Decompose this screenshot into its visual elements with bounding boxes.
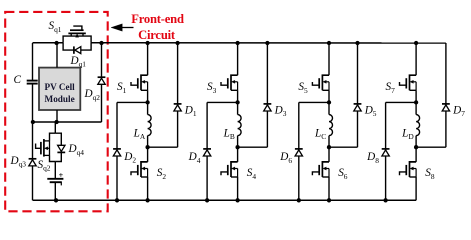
wire: upper cross wire to D4 branch bbox=[207, 101, 238, 103]
wire: D3 branch from top rail down to node wire bbox=[266, 43, 268, 147]
wire: capacitor C down to mid wire bbox=[32, 84, 34, 122]
junction dot Dq2 branch at top rail bbox=[99, 41, 103, 45]
junction dot S5 drain at top rail bbox=[327, 41, 331, 45]
svg-text:C: C bbox=[14, 74, 22, 86]
junction dot at S5 source / inductor LC top bbox=[327, 100, 331, 104]
wire: node D across to diode D7 branch bbox=[416, 146, 446, 148]
wire: PV module top lead to top rail bbox=[56, 43, 58, 68]
junction dot D1 branch at top rail bbox=[175, 41, 179, 45]
junction dot D4 branch at bottom rail bbox=[205, 198, 209, 202]
junction dot node A bbox=[145, 145, 149, 149]
wire: junction down to inductor bbox=[328, 102, 330, 114]
junction dot at S3 source / inductor LB top bbox=[235, 100, 239, 104]
wire: node C across to diode D5 branch bbox=[329, 146, 358, 148]
wire: bottom return rail bbox=[33, 199, 417, 201]
svg-text:Module: Module bbox=[45, 94, 75, 104]
junction dot D5 branch at top rail bbox=[355, 41, 359, 45]
wire: node B down to S4 bbox=[237, 147, 239, 162]
wire: node D down to S8 bbox=[415, 147, 417, 162]
diode D6 bbox=[295, 149, 303, 156]
switch S8 (MOSFET) bbox=[400, 162, 417, 177]
inductor LD bbox=[416, 115, 420, 136]
wire: D8 branch from upper cross wire to bottom rail bbox=[385, 102, 387, 200]
junction dot D2 branch at bottom rail bbox=[115, 198, 119, 202]
wire: PV module bottom lead to mid wire bbox=[56, 110, 58, 122]
wire: junction down to inductor bbox=[415, 102, 417, 114]
wire: capacitor to bottom rail bbox=[54, 182, 56, 200]
junction dot S6 at bottom rail bbox=[327, 198, 331, 202]
wire: S3 drain from top rail bbox=[237, 43, 239, 75]
junction dot at PV top lead / top rail bbox=[54, 41, 58, 45]
switch S6 (MOSFET) bbox=[312, 162, 329, 177]
diode Dq2 bbox=[98, 77, 106, 84]
wire: node C down to S6 bbox=[328, 147, 330, 162]
wire: S4 source to bottom rail bbox=[237, 177, 239, 200]
switch S2 (MOSFET) bbox=[131, 162, 148, 177]
annotation arrow pointing to front-end box bbox=[111, 24, 134, 31]
diode D8 bbox=[382, 149, 390, 156]
inductor LA bbox=[148, 115, 152, 136]
junction dot at S7 source / inductor LD top bbox=[414, 100, 418, 104]
wire: D7 branch from top rail down to node wire bbox=[445, 43, 447, 147]
svg-text:Circuit: Circuit bbox=[138, 28, 176, 42]
wire: upper cross wire to D8 branch bbox=[386, 101, 417, 103]
polarized output capacitor of front-end bbox=[47, 171, 63, 185]
wire: S7 source down to left-branch junction bbox=[415, 90, 417, 102]
wire: upper cross wire to D6 branch bbox=[299, 101, 329, 103]
junction dot S7 drain at top rail bbox=[414, 41, 418, 45]
junction dot node D bbox=[414, 145, 418, 149]
junction dot D3 branch at top rail bbox=[265, 41, 269, 45]
front-end circuit dashed boundary box bbox=[5, 12, 108, 211]
junction dot S1 drain at top rail bbox=[145, 41, 149, 45]
wire: S3 source down to left-branch junction bbox=[237, 90, 239, 102]
wire: node A down to S2 bbox=[147, 147, 149, 162]
wire: inductor bottom to node D bbox=[415, 136, 417, 148]
wire: Sq2 box bottom to output capacitor bbox=[54, 162, 56, 179]
switch S3 (MOSFET) bbox=[221, 75, 238, 90]
switch S1 (MOSFET) bbox=[131, 75, 148, 90]
wire: left branch from top rail down to capacitor C bbox=[32, 43, 34, 80]
switch S7 (MOSFET) bbox=[400, 75, 417, 90]
svg-text:PV Cell: PV Cell bbox=[44, 82, 75, 92]
junction dot D6 branch at bottom rail bbox=[297, 198, 301, 202]
svg-text:Front-end: Front-end bbox=[131, 12, 184, 26]
wire: S2 source to bottom rail bbox=[147, 177, 149, 200]
capacitor C bbox=[27, 81, 38, 84]
inductor LC bbox=[329, 115, 333, 136]
junction dot node C bbox=[327, 145, 331, 149]
wire: D5 branch from top rail down to node wire bbox=[357, 43, 359, 147]
wire: S1 source down to left-branch junction bbox=[147, 90, 149, 102]
wire: front-end mid wire under PV module bbox=[33, 121, 102, 123]
wire: S5 source down to left-branch junction bbox=[328, 90, 330, 102]
wire: S8 source to bottom rail bbox=[415, 177, 417, 200]
wire: D1 branch from top rail down to node wire bbox=[177, 43, 179, 147]
diode Dq4 (cathode down) on right edge of Sq2 box bbox=[57, 145, 65, 152]
wire: junction down to inductor bbox=[147, 102, 149, 114]
switch S5 (MOSFET) bbox=[312, 75, 329, 90]
wire: D4 branch from upper cross wire to bottom rail bbox=[206, 102, 208, 200]
diode D7 bbox=[442, 104, 450, 111]
wire: S5 drain from top rail bbox=[328, 43, 330, 75]
wire: node B across to diode D3 branch bbox=[238, 146, 268, 148]
wire: node A across to diode D1 branch bbox=[148, 146, 178, 148]
junction dot S3 drain at top rail bbox=[235, 41, 239, 45]
diode Dq1 (anti-parallel, cathode left) on lower edge of Sq1 box bbox=[74, 46, 81, 53]
switch Sq2 (MOSFET) with box bbox=[36, 133, 62, 161]
wire: D6 branch from upper cross wire to bottom rail bbox=[298, 102, 300, 200]
junction dot S4 at bottom rail bbox=[235, 198, 239, 202]
diode Dq3 bbox=[29, 159, 37, 166]
wire: S7 drain from top rail bbox=[415, 43, 417, 75]
junction dot D8 branch at bottom rail bbox=[383, 198, 387, 202]
wire: S6 source to bottom rail bbox=[328, 177, 330, 200]
diode D2 bbox=[113, 149, 121, 156]
svg-text:+: + bbox=[59, 171, 64, 180]
wire: junction down to inductor bbox=[237, 102, 239, 114]
wire: top positive rail (right of Sq1 box) bbox=[91, 42, 446, 44]
wire: diode Dq2 branch from top rail to mid wire bbox=[101, 43, 103, 122]
wire: inductor bottom to node B bbox=[237, 136, 239, 148]
switch S4 (MOSFET) bbox=[221, 162, 238, 177]
junction dot Sq2/cap branch at bottom rail bbox=[54, 198, 58, 202]
wire: Dq3 branch from mid wire to bottom rail bbox=[32, 122, 34, 200]
junction dot S2 at bottom rail bbox=[145, 198, 149, 202]
wire: inductor bottom to node A bbox=[147, 136, 149, 148]
wire: top positive rail (left of Sq1 box) bbox=[33, 42, 64, 44]
junction dot node B bbox=[235, 145, 239, 149]
wire: S1 drain from top rail bbox=[147, 43, 149, 75]
wire: Sq2 feed from mid wire down to Sq2/Dq4 box bbox=[54, 122, 56, 133]
wire: inductor bottom to node C bbox=[328, 136, 330, 148]
junction dot mid-wire left bbox=[31, 120, 35, 124]
wire: D2 branch from upper cross wire to bottom rail bbox=[116, 102, 118, 200]
junction dot mid-wire under PV bbox=[54, 120, 58, 124]
inductor LB bbox=[238, 115, 242, 136]
diode D5 bbox=[354, 104, 362, 111]
diode D1 bbox=[174, 104, 182, 111]
switch Sq1 (MOSFET, horizontal) bbox=[63, 26, 91, 50]
diode D4 bbox=[203, 149, 211, 156]
PV cell module block bbox=[39, 68, 80, 110]
junction dot at S1 source / inductor LA top bbox=[145, 100, 149, 104]
diode D3 bbox=[264, 104, 272, 111]
wire: upper cross wire to D2 branch bbox=[117, 101, 148, 103]
annotation label Front-end Circuit bbox=[131, 12, 184, 42]
